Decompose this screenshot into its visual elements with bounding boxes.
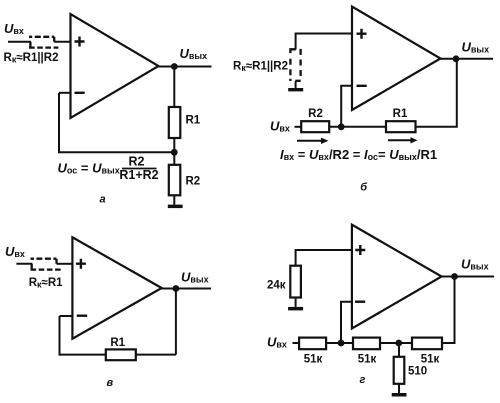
wire feedback horizontal (a) <box>59 151 174 153</box>
svg-text:51к: 51к <box>358 354 377 366</box>
ground (b) <box>288 88 303 91</box>
svg-text:R2: R2 <box>129 155 145 169</box>
minus input mark (b) <box>357 85 367 87</box>
svg-text:24к: 24к <box>267 280 286 292</box>
svg-text:R1+R2: R1+R2 <box>119 168 158 182</box>
resistor R1 (b) <box>386 121 416 132</box>
wire feedback vertical (v) <box>59 316 61 356</box>
resistor R1 (a) <box>169 107 181 138</box>
svg-text:510: 510 <box>408 366 427 378</box>
wire R2 to ground (a) <box>173 195 175 204</box>
op-amp U1 (a) <box>71 14 159 118</box>
wire Rk to noninverting input (v) <box>57 263 73 265</box>
node junction 2 (g) <box>395 340 402 347</box>
plus input mark (a) <box>75 37 85 47</box>
wire feedback vertical (a) <box>58 93 60 154</box>
resistor 51k second (g) <box>353 338 380 350</box>
wire output (b) <box>440 58 494 60</box>
wire output (v) <box>160 288 211 290</box>
op-amp U2 (b) <box>352 7 441 110</box>
wire 24k to ground (g) <box>295 298 297 307</box>
svg-text:в: в <box>107 377 114 389</box>
svg-text:Rк≈R1: Rк≈R1 <box>29 277 63 290</box>
op-amp U3 (v) <box>72 237 161 338</box>
wire junction 2 to 510 (g) <box>398 343 400 357</box>
wire output to feedback (v) <box>175 289 177 355</box>
resistor Rk dashed (b) <box>290 49 300 81</box>
node feedback junction (a) <box>171 149 178 156</box>
node junction (b) <box>338 123 345 130</box>
svg-text:а: а <box>100 194 106 206</box>
resistor 510 (g) <box>394 357 405 384</box>
ground left (g) <box>288 307 303 311</box>
wire feedback bottom (v) <box>60 354 176 356</box>
wire Rk to ground (b) <box>295 81 297 88</box>
resistor 51k first (g) <box>299 338 326 350</box>
resistor R1 (v) <box>106 349 136 360</box>
wire feedback to inverting input (a) <box>59 92 71 94</box>
resistor R2 (a) <box>169 165 181 196</box>
wire second to third 51k (g) <box>380 342 412 344</box>
minus input mark (v) <box>77 315 87 317</box>
minus input mark (a) <box>75 92 85 94</box>
wire input stub (v) <box>16 263 32 265</box>
wire first to second 51k (g) <box>326 342 353 344</box>
resistor 24k (g) <box>290 266 301 298</box>
svg-text:51к: 51к <box>304 354 323 366</box>
resistor Rk dashed (a) <box>29 37 58 48</box>
resistor Rk dashed (v) <box>31 259 61 270</box>
resistor R2 (b) <box>301 121 329 132</box>
current arrow input (b) <box>297 138 329 144</box>
node output junction (b) <box>453 55 460 62</box>
wire inverting input (g) <box>341 302 352 343</box>
wire input stub (g) <box>293 342 300 344</box>
minus input mark (g) <box>355 301 365 303</box>
svg-text:R2: R2 <box>186 176 201 188</box>
svg-text:б: б <box>360 182 368 194</box>
wire R1 to output (b) <box>416 59 457 127</box>
wire output (a) <box>157 66 212 68</box>
svg-text:Rк≈R1||R2: Rк≈R1||R2 <box>233 61 288 74</box>
op-amp U4 (g) <box>352 225 442 329</box>
wire input stub (a) <box>8 41 31 43</box>
wire feedback to inverting input (v) <box>60 315 73 317</box>
wire Rk to noninverting input (a) <box>54 41 70 43</box>
node junction 1 (g) <box>338 340 345 347</box>
ground (a) <box>168 205 183 209</box>
wire 510 to ground (g) <box>398 384 400 393</box>
svg-text:Rк≈R1||R2: Rк≈R1||R2 <box>4 52 59 65</box>
wire R2 to junction to R1 (b) <box>329 126 386 128</box>
svg-text:R2: R2 <box>308 108 323 120</box>
svg-text:51к: 51к <box>421 354 440 366</box>
svg-text:R1: R1 <box>110 337 125 349</box>
wire R1 to feedback junction (a) <box>173 138 175 165</box>
plus input mark (g) <box>355 245 365 255</box>
current arrow feedback (b) <box>388 137 418 143</box>
wire noninverting input (b) <box>296 34 352 50</box>
svg-text:г: г <box>360 374 366 386</box>
plus input mark (v) <box>76 259 86 269</box>
node output junction (g) <box>451 273 458 280</box>
wire input stub (b) <box>295 126 302 128</box>
plus input mark (b) <box>357 29 367 39</box>
ground right (g) <box>392 393 407 397</box>
wire output (g) <box>441 276 495 278</box>
resistor 51k third (g) <box>412 338 442 350</box>
wire third 51k to output (g) <box>442 277 455 344</box>
node output junction (v) <box>173 285 180 292</box>
svg-text:R1: R1 <box>393 108 408 120</box>
wire noninverting input (g) <box>296 250 352 266</box>
formula Uoc (a) <box>58 155 159 183</box>
svg-text:R1: R1 <box>186 115 201 127</box>
node output junction (a) <box>171 63 178 70</box>
wire inverting input (b) <box>341 86 352 127</box>
wire output to R1 (a) <box>173 67 175 108</box>
